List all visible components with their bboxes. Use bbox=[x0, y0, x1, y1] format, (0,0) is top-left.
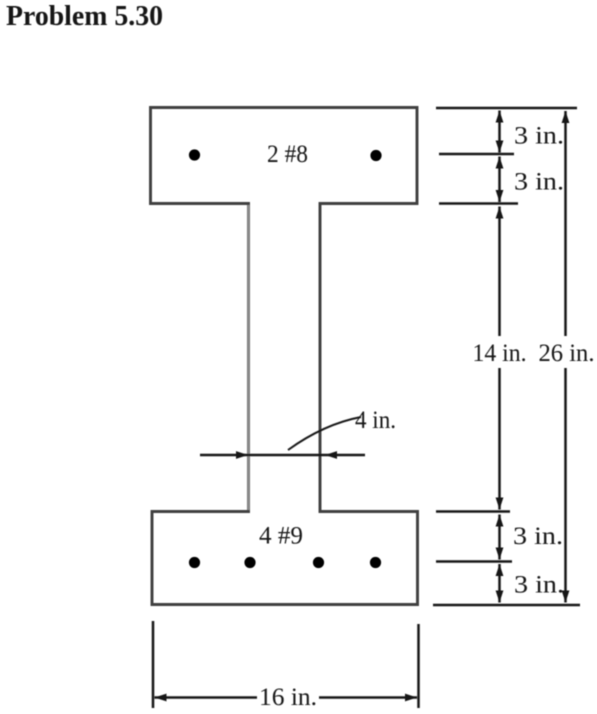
svg-text:4 #9: 4 #9 bbox=[259, 523, 303, 550]
svg-text:3 in.: 3 in. bbox=[513, 523, 563, 550]
svg-text:4 in.: 4 in. bbox=[355, 407, 396, 434]
svg-text:2 #8: 2 #8 bbox=[267, 141, 308, 168]
svg-text:16 in.: 16 in. bbox=[259, 684, 317, 711]
svg-text:14 in.: 14 in. bbox=[473, 340, 527, 367]
svg-text:3 in.: 3 in. bbox=[514, 123, 564, 150]
svg-text:3 in.: 3 in. bbox=[514, 572, 564, 599]
svg-text:Problem 5.30: Problem 5.30 bbox=[6, 0, 163, 32]
svg-text:26 in.: 26 in. bbox=[539, 340, 595, 367]
svg-text:3 in.: 3 in. bbox=[514, 169, 564, 196]
